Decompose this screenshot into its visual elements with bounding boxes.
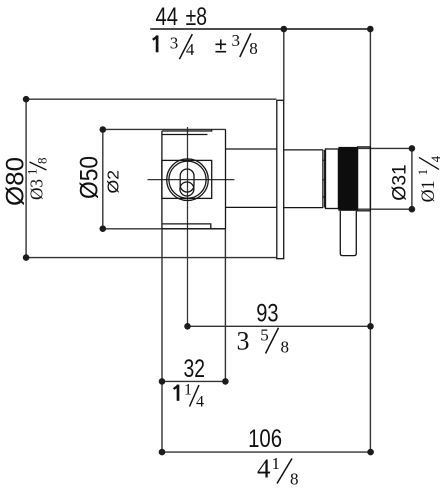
label dia2 inch [106,170,123,194]
svg-text:1: 1 [25,169,40,176]
dot dia50 bottom [100,225,107,232]
dot dia31 top [409,145,416,152]
extension line body left vertical [161,229,163,452]
extension line handle end vertical [369,29,371,452]
svg-text:4: 4 [186,40,195,59]
label dia80 mm [2,157,30,206]
sleeve hidden segment bottom [226,206,277,208]
label 1 3/4 +- 3/8 inch [153,35,158,52]
svg-text:4: 4 [257,454,271,484]
valve body inner top line [163,134,208,136]
svg-text:4: 4 [196,394,204,411]
extension line dia50 top [103,128,226,130]
extension line dia31 top [357,147,412,149]
valve body outline [162,129,226,228]
spindle small circle [180,182,194,196]
dot dia80 bottom [23,254,30,261]
dim line dia31 right [411,148,413,209]
label 1 1/4 inch [174,385,179,401]
svg-text:3: 3 [170,33,179,52]
extension line dia80 top [26,98,276,100]
label dia1 1/4 inch [415,155,442,202]
svg-text:Ø31: Ø31 [390,164,411,201]
svg-text:1: 1 [415,169,430,176]
dot dia31 bottom [409,206,416,213]
handle lever [340,211,356,256]
label dia31 mm [390,164,411,201]
sleeve bottom [284,207,323,209]
dot 106 left [159,449,166,456]
trim collar [326,149,339,209]
svg-text:8: 8 [290,470,299,489]
sleeve top [284,149,323,151]
cartridge square [162,160,212,198]
svg-text:Ø50: Ø50 [76,156,104,199]
svg-text:93: 93 [256,300,278,328]
dim line dia50 [102,130,104,229]
svg-text:Ø1: Ø1 [418,180,439,202]
extension line body right vertical [224,229,226,382]
dot dia50 top [100,126,107,133]
dot dia80 top [23,96,30,103]
label dia50 mm [76,156,104,199]
extension line from plate front to 44 dim [283,29,285,100]
svg-text:±: ± [215,32,227,57]
centerline horizontal [148,179,235,181]
svg-text:Ø80: Ø80 [2,157,30,206]
svg-text:8: 8 [281,338,290,357]
dim line 44 top [150,28,370,30]
svg-text:44: 44 [156,3,178,31]
dot 106 right [367,449,374,456]
svg-text:Ø2: Ø2 [106,170,123,194]
cartridge inner circle [169,161,206,198]
extension line dia31 bottom [357,208,412,210]
svg-text:3: 3 [237,327,250,356]
centerline vertical [187,127,189,326]
spindle capsule [180,169,194,192]
valve body inner bottom line [163,224,211,229]
dot 32 left [159,378,166,385]
label dia3 1/8 inch [25,158,50,201]
dot 44 left [281,26,288,33]
sleeve hidden segment top [226,148,277,150]
dim line 32 [162,380,225,382]
wall plate [277,100,284,258]
dot 93 right [367,323,374,330]
svg-text:8: 8 [35,158,50,165]
ring tick marks [322,159,325,161]
svg-text:32: 32 [184,355,206,383]
svg-text:5: 5 [260,326,269,345]
trim cap [358,147,371,211]
dim line dia80 left [25,99,27,257]
cartridge outer circle [167,159,209,201]
svg-text:8: 8 [249,39,257,58]
dot 32 right [222,378,229,385]
svg-text:1: 1 [272,454,281,473]
svg-text:3: 3 [232,31,241,50]
svg-text:4: 4 [428,155,442,162]
trim black band [338,147,357,211]
svg-text:±8: ±8 [186,3,207,31]
svg-text:106: 106 [248,425,282,453]
dim line 93 [188,325,371,327]
extension line dia80 bottom [26,257,276,259]
svg-text:1: 1 [184,382,192,399]
sleeve end ring [322,150,324,208]
extension line dia50 bottom [103,228,226,230]
dot 93 left [184,323,191,330]
dot 44 right [367,26,374,33]
svg-text:Ø3: Ø3 [27,179,47,200]
dim line 106 [162,451,371,453]
